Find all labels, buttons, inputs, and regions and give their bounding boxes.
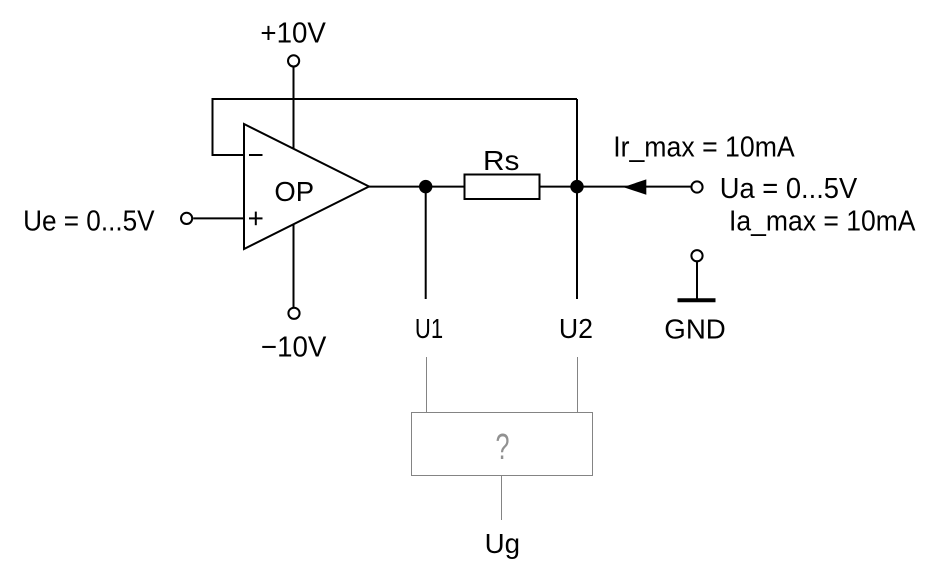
- svg-text:−10V: −10V: [261, 332, 327, 364]
- svg-text:U1: U1: [415, 313, 443, 344]
- svg-text:GND: GND: [664, 313, 726, 344]
- svg-text:Ue = 0...5V: Ue = 0...5V: [23, 206, 155, 238]
- svg-text:Ug: Ug: [485, 528, 520, 559]
- svg-text:OP: OP: [274, 176, 314, 207]
- svg-text:U2: U2: [559, 313, 593, 344]
- svg-text:?: ?: [496, 426, 510, 467]
- svg-text:+10V: +10V: [260, 18, 326, 50]
- svg-text:Ua = 0...5V: Ua = 0...5V: [720, 173, 858, 205]
- svg-text:Rs: Rs: [483, 145, 519, 176]
- svg-text:Ir_max = 10mA: Ir_max = 10mA: [613, 132, 795, 164]
- svg-text:Ia_max = 10mA: Ia_max = 10mA: [729, 206, 916, 238]
